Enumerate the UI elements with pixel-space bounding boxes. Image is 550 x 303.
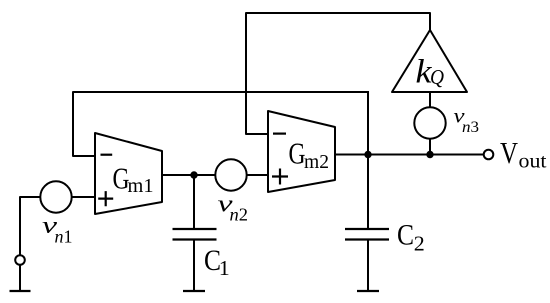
svg-text:G: G xyxy=(289,136,306,171)
svg-text:n1: n1 xyxy=(55,227,73,247)
wire kQ bottom to vn3 xyxy=(429,92,431,108)
node C (vn3 / output) xyxy=(426,151,433,158)
wire output line from Gm2 to output terminal xyxy=(335,154,483,156)
wire C1 to ground xyxy=(193,240,195,291)
wire vn3 to output node xyxy=(429,139,431,155)
capacitor C1 plates xyxy=(173,229,217,240)
svg-text:1: 1 xyxy=(219,256,230,280)
svg-text:Q: Q xyxy=(430,65,444,89)
Gm2 plus sign xyxy=(272,169,288,185)
wire vn2 to Gm2 non-inverting input xyxy=(247,174,268,176)
amplifier kQ body (triangle) xyxy=(392,30,467,92)
Gm1 plus sign xyxy=(98,191,113,206)
Gm1 minus sign xyxy=(101,154,113,156)
capacitor C2 plates xyxy=(345,229,389,240)
ground (C1) xyxy=(183,290,205,292)
svg-text:2: 2 xyxy=(414,232,425,256)
transconductor U2 Gm2 body xyxy=(268,111,335,192)
wire input terminal to ground xyxy=(19,266,21,291)
wire Gm2 output vertical through node down to C2 xyxy=(367,92,369,228)
svg-text:V: V xyxy=(500,135,518,170)
wire node A down to C1 xyxy=(193,175,195,228)
noise source vn3 (circle) xyxy=(414,107,445,138)
svg-text:m2: m2 xyxy=(304,151,329,173)
wire kQ feedback: top loop from kQ apex to Gm2 inverting input xyxy=(246,13,430,134)
svg-text:n2: n2 xyxy=(230,205,249,225)
node B (Gm2 output / C2 / feedback) xyxy=(364,151,371,158)
wire vn1 to Gm1 non-inverting input xyxy=(72,196,95,198)
transconductor U1 Gm1 body xyxy=(95,133,162,214)
wire Gm1 output to vn2 xyxy=(162,174,215,176)
output terminal Vout (open circle) xyxy=(484,150,494,160)
wire C2 to ground xyxy=(367,240,369,291)
noise source vn1 (circle) xyxy=(40,181,71,212)
svg-text:C: C xyxy=(397,219,414,252)
wire input ground to vn1 xyxy=(20,197,40,254)
ground (C2) xyxy=(357,290,379,292)
svg-text:n3: n3 xyxy=(462,119,479,136)
svg-text:m1: m1 xyxy=(128,175,154,197)
node A (Gm1 output / C1) xyxy=(190,171,197,178)
noise source vn2 (circle) xyxy=(215,159,246,190)
svg-text:out: out xyxy=(519,151,547,173)
wire Gm2 output feedback loop to Gm1 inverting input xyxy=(73,92,368,156)
Gm2 minus sign xyxy=(273,133,286,135)
ground (input) xyxy=(10,290,31,292)
input terminal (open circle) xyxy=(15,255,25,265)
